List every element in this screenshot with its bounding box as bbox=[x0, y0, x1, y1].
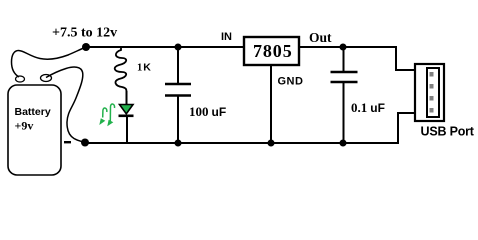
wire 7805 GND pin to rail bbox=[270, 65, 272, 143]
svg-text:+7.5 to 12v: +7.5 to 12v bbox=[52, 26, 117, 41]
wire 7805 OUT to corner bbox=[299, 46, 397, 48]
capacitor C2 top plate bbox=[331, 71, 358, 73]
wire top rail from battery+ to 7805 IN bbox=[86, 46, 244, 48]
USB port connector J1 outer shell bbox=[415, 64, 444, 121]
LED light arrow right bbox=[110, 104, 114, 122]
node 100uF top junction bbox=[175, 44, 182, 51]
regulator U1 7805 box bbox=[244, 37, 299, 65]
wire USB bottom stub to ground rail bbox=[398, 113, 415, 143]
svg-text:1K: 1K bbox=[137, 62, 151, 74]
capacitor C1 top plate bbox=[165, 83, 191, 85]
USB contact pad 3 bbox=[430, 96, 434, 101]
resistor R1 1K squiggle bbox=[115, 47, 127, 92]
svg-text:GND: GND bbox=[278, 76, 304, 88]
wire curvy battery positive lead bbox=[12, 47, 87, 77]
capacitor C2 0.1uF top lead bbox=[343, 47, 345, 72]
capacitor C1 bottom plate bbox=[165, 94, 191, 96]
USB port inner tongue bbox=[427, 68, 439, 117]
svg-text:Out: Out bbox=[309, 30, 332, 45]
USB contact pad 4 bbox=[430, 108, 434, 113]
wire corner down to USB top stub bbox=[396, 47, 415, 70]
node battery minus junction bbox=[81, 139, 89, 147]
LED light arrow left bbox=[103, 108, 107, 118]
node 100uF bottom junction bbox=[175, 140, 182, 147]
USB contact pad 1 bbox=[430, 72, 434, 77]
USB contact pad 2 bbox=[430, 84, 434, 89]
wire LED to ground rail bbox=[126, 117, 128, 143]
wire resistor to LED bbox=[126, 91, 128, 105]
node GND bottom junction bbox=[268, 140, 275, 147]
minus sign at battery negative node bbox=[64, 141, 71, 143]
capacitor C2 bottom lead bbox=[343, 82, 345, 143]
battery left terminal bbox=[16, 76, 25, 82]
node 0.1uF bottom junction bbox=[340, 140, 347, 147]
LED D1 triangle bbox=[120, 105, 134, 114]
capacitor C2 bottom plate bbox=[331, 81, 358, 83]
svg-text:USB Port: USB Port bbox=[421, 124, 475, 138]
svg-text:IN: IN bbox=[221, 31, 232, 43]
svg-text:7805: 7805 bbox=[253, 41, 293, 61]
wire bottom ground rail bbox=[85, 142, 399, 144]
capacitor C1 100uF top lead bbox=[177, 47, 179, 84]
battery B1 body bbox=[8, 85, 61, 175]
svg-text:+9v: +9v bbox=[15, 119, 34, 133]
battery right terminal bbox=[41, 75, 52, 82]
LED D1 cathode bar bbox=[119, 115, 134, 118]
svg-text:100uF: 100uF bbox=[189, 104, 226, 119]
node 0.1uF top junction bbox=[340, 44, 347, 51]
node battery plus junction bbox=[82, 43, 90, 51]
svg-text:Battery: Battery bbox=[15, 106, 51, 118]
capacitor C1 bottom lead bbox=[177, 96, 179, 144]
wire curvy battery negative lead bbox=[46, 67, 85, 142]
